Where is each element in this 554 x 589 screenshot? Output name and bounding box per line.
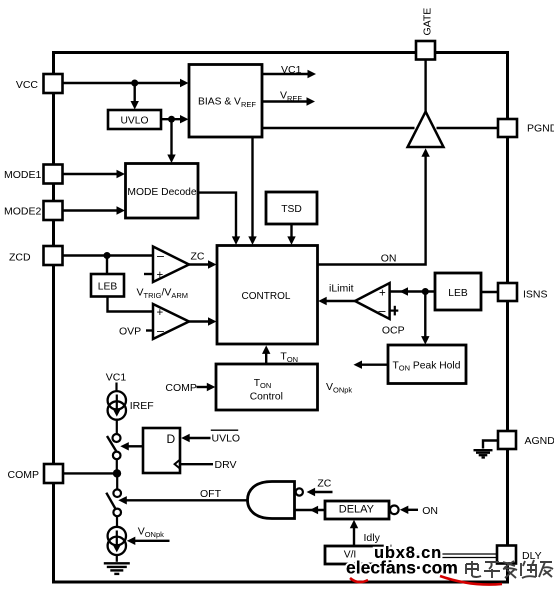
wire TON Control to CONTROL	[262, 345, 270, 364]
wire junction to TON Peak Hold	[421, 292, 429, 345]
gate AND left-facing	[248, 482, 295, 519]
wire stub OVP minus input	[146, 329, 153, 331]
wire ZCD to comparator	[63, 254, 154, 256]
svg-text:GATE: GATE	[422, 8, 434, 36]
wire COMP to TON Control	[197, 383, 216, 391]
wire ON input to DELAY	[400, 506, 418, 514]
wire VONpk source to ground	[116, 555, 118, 562]
wire UVLO to BIAS	[161, 115, 189, 123]
ground AGND symbol	[474, 450, 493, 457]
wire lower switch to VONpk source	[116, 516, 118, 528]
wire VC1 stub to IREF	[115, 383, 117, 392]
svg-text:ON: ON	[422, 505, 438, 517]
pin PGND	[498, 119, 517, 137]
wire stub OCP minus reference	[390, 306, 399, 316]
svg-text:Idly: Idly	[364, 532, 381, 544]
wire junction to MODE Decode	[167, 119, 175, 163]
pin VCC	[44, 74, 63, 93]
svg-text:UVLO: UVLO	[120, 116, 148, 127]
wire DRV input to DFF	[181, 463, 213, 465]
svg-text:LEB: LEB	[448, 288, 468, 299]
wire DELAY to gate	[295, 506, 326, 514]
wire V/I to DLY pin	[390, 554, 496, 558]
wire LEB to ISNS	[481, 291, 498, 293]
svg-text:+: +	[379, 287, 386, 299]
wire AGND to ground	[483, 441, 498, 449]
svg-text:VC1: VC1	[281, 64, 302, 76]
node ZCD junction	[104, 252, 111, 259]
wire switch to COMP node	[116, 459, 118, 473]
svg-text:+: +	[157, 270, 164, 282]
block CONTROL	[217, 246, 318, 345]
block TON Control	[216, 364, 318, 410]
wire Idly V/I to DELAY	[350, 520, 358, 546]
current source IREF arrow	[112, 395, 121, 417]
svg-text:IREF: IREF	[130, 400, 154, 412]
pin DLY	[497, 546, 516, 564]
pin ISNS	[498, 283, 517, 301]
svg-text:ZC: ZC	[317, 478, 331, 490]
overline UVLO	[211, 429, 238, 431]
pin COMP	[44, 464, 63, 483]
wire BIAS to CONTROL	[248, 137, 256, 245]
flip-flop U1	[143, 428, 180, 473]
svg-text:elecfans·com: elecfans·com	[346, 558, 458, 578]
current source VONpk arrow	[112, 531, 121, 553]
block LEB left	[91, 274, 124, 297]
svg-text:–: –	[157, 324, 164, 338]
svg-text:DRV: DRV	[215, 459, 237, 471]
svg-text:VC1: VC1	[106, 372, 127, 384]
wire node to lower switch	[116, 473, 118, 489]
outer border frame	[54, 53, 508, 583]
gate input bubble	[296, 488, 303, 495]
wire MODE1 to MODE Decode	[63, 170, 126, 178]
block LEB right	[435, 273, 481, 310]
pin MODE2	[44, 201, 63, 220]
svg-text:DLY: DLY	[522, 550, 542, 562]
svg-text:+: +	[157, 307, 164, 319]
wire VREF output	[262, 97, 315, 105]
wire LEB to OVP comparator	[108, 297, 154, 312]
svg-text:COMP: COMP	[8, 469, 40, 481]
wire VONpk input to source	[127, 537, 170, 545]
wire IREF to switch	[116, 420, 118, 434]
svg-text:Control: Control	[250, 391, 283, 402]
node VCC junction	[131, 80, 138, 87]
wire DFF output to switch	[120, 442, 143, 450]
flip-flop clock chevron	[175, 460, 180, 469]
svg-text:–: –	[379, 304, 386, 318]
svg-text:D: D	[167, 432, 176, 446]
comparator OCP	[355, 283, 390, 319]
svg-text:–: –	[157, 249, 164, 263]
svg-text:OCP: OCP	[382, 325, 405, 337]
svg-text:LEB: LEB	[98, 282, 118, 293]
wire COMP pin to node	[63, 472, 117, 474]
switch S2 lower	[106, 489, 121, 516]
pin GATE	[416, 41, 435, 60]
svg-text:MODE2: MODE2	[4, 206, 42, 218]
block V/I	[325, 546, 390, 564]
comparator ZC	[153, 247, 189, 283]
comparator OVP	[153, 304, 189, 339]
block MODE Decode	[126, 164, 199, 219]
driver amplifier	[408, 112, 444, 147]
wire BIAS supply rail to driver and PGND	[262, 127, 498, 129]
wire MODE Decode to CONTROL	[198, 193, 240, 245]
block UVLO	[108, 110, 161, 129]
wire ZC output to CONTROL	[189, 260, 217, 268]
switch S1 upper	[107, 434, 121, 459]
wire OVP output to CONTROL	[189, 317, 217, 325]
wire UVLO input to DFF	[181, 434, 210, 442]
svg-text:TSD: TSD	[281, 204, 302, 215]
pin MODE1	[44, 165, 63, 184]
pin ZCD	[44, 246, 63, 265]
DELAY output bubble	[390, 506, 399, 515]
wire LEB to OCP plus input	[390, 287, 435, 295]
block DELAY	[325, 501, 389, 519]
watermark chinese characters	[466, 560, 553, 578]
svg-text:VCC: VCC	[16, 79, 39, 91]
block TON Peak Hold	[388, 345, 466, 384]
svg-text:PGND: PGND	[527, 123, 554, 135]
svg-text:CONTROL: CONTROL	[242, 291, 291, 302]
svg-text:ZCD: ZCD	[9, 252, 31, 264]
wire ZC input to gate	[307, 488, 333, 496]
wire TON Peak Hold output arrow	[354, 361, 389, 369]
wire iLimit OCP to CONTROL	[318, 297, 355, 305]
block TSD	[266, 192, 317, 224]
svg-text:ON: ON	[381, 252, 397, 264]
svg-text:ISNS: ISNS	[523, 289, 548, 301]
wire ON from CONTROL to driver	[318, 148, 430, 264]
svg-text:OVP: OVP	[119, 326, 141, 338]
node UVLO output junction	[168, 116, 175, 123]
svg-text:AGND: AGND	[525, 435, 554, 447]
wire TSD to CONTROL	[287, 224, 295, 245]
wire driver to GATE	[424, 60, 426, 113]
svg-text:iLimit: iLimit	[329, 283, 354, 295]
block BIAS and VREF	[189, 65, 262, 138]
wire VC1 output	[262, 70, 316, 78]
svg-text:MODE Decode: MODE Decode	[127, 187, 197, 198]
current source IREF	[108, 391, 126, 420]
svg-text:COMP: COMP	[165, 382, 197, 394]
node OCP input junction	[422, 288, 429, 295]
svg-text:MODE1: MODE1	[4, 169, 42, 181]
pin AGND	[498, 431, 516, 449]
node COMP junction	[113, 469, 121, 477]
svg-text:OFT: OFT	[200, 488, 222, 500]
wire stub ZC comparator plus input	[144, 273, 153, 275]
wire MODE2 to MODE Decode	[63, 206, 126, 214]
svg-text:UVLO: UVLO	[212, 432, 241, 444]
svg-text:DELAY: DELAY	[339, 503, 375, 515]
wire junction to UVLO	[131, 83, 139, 110]
ground VONpk symbol	[104, 563, 130, 574]
current source VONpk	[108, 527, 126, 555]
wire VCC to BIAS	[63, 79, 189, 87]
wire ZCD junction to LEB	[106, 256, 108, 275]
wire OFT gate output to switch	[118, 496, 247, 504]
svg-text:ZC: ZC	[191, 250, 205, 262]
watermark red swoosh	[350, 576, 502, 585]
